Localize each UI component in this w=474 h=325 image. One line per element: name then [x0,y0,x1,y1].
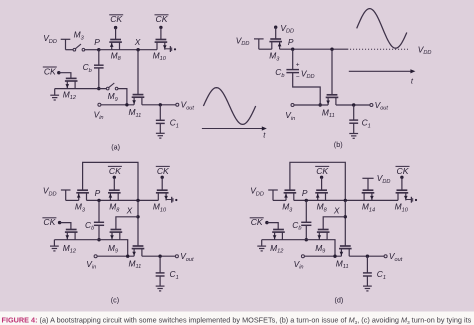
label C1 (c) [170,269,179,281]
terminal Vout (b) [370,104,373,107]
wire gate M11 (b) [331,49,333,95]
wire P to Cb (a) [98,50,100,65]
transistor M10 (c) [156,190,169,200]
terminal stub right of M10 (d) [406,197,417,203]
label M12 (a) [63,89,77,101]
label t (a) [263,131,266,140]
wire Cb to bottom node (d) [305,226,307,240]
label C1 (a) [170,118,179,130]
wire C1 bottom (c) [159,276,161,286]
wire gate M3 (b) [275,27,277,39]
wire bottom node row (d) [262,239,328,241]
label plus (b) [296,62,300,69]
capacitor C1 (b) [349,120,358,123]
label VDD (c) [43,186,57,198]
transistor M9 (c) [110,230,123,240]
label Vout (b) [375,100,389,112]
transistor M10 (a) [155,40,168,50]
switch M9 (a) [106,83,118,90]
wire Cb to bottom node (c) [98,226,100,240]
wire gate M8 (a) [115,28,117,40]
wire P to Cb (c) [98,200,100,222]
label CKbar left (a) [43,66,57,76]
label P (b) [288,37,294,47]
capacitor C1 (c) [156,273,165,276]
transistor M3 (c) [76,190,89,200]
label M11 (d) [336,258,349,270]
wire VDD stub to switch M3 (a) [61,39,73,49]
label M8 (c) [109,202,120,214]
node P (c) [97,199,100,202]
node CKbar dot M8 (d) [320,176,323,179]
svg-text:CK: CK [397,166,410,176]
label M14 (d) [362,202,375,214]
label CKbar above M8 (a) [109,14,123,24]
transistor M8 (a) [109,40,122,50]
terminal Vout (a) [176,103,179,106]
wire gate M3 tie to X top (d) [290,162,345,200]
wire VDD stub gate M14 (d) [362,178,373,190]
wire X vertical down to gate M11 (c) [137,200,139,246]
node X junction on rail (d) [344,199,347,202]
axis arrow t (b) [349,69,416,73]
svg-text:P: P [288,37,294,47]
wire bottom node row (a) [55,88,107,90]
node X junction on rail (c) [136,199,139,202]
wire M3 to P and rail (b) [280,48,349,50]
label P (c) [95,188,101,198]
svg-text:CK: CK [109,166,122,176]
label VDD (d) [250,186,264,198]
label M10 (d) [395,202,409,214]
svg-text:CK: CK [316,166,329,176]
svg-text:FIGURE 4: (a) A bootstrapping: FIGURE 4: (a) A bootstrapping circuit wi… [2,316,472,325]
wire ground riser M12 (d) [261,240,263,246]
capacitor Cb (a) [94,65,104,68]
terminal Vin (a) [98,103,101,106]
label Cb (c) [85,220,94,232]
label M3 (d) [282,202,293,214]
caption FIGURE 4 [2,316,472,325]
label M11 (c) [129,258,142,270]
node Cb bottom (c) [97,238,100,241]
node X (c) [136,215,139,218]
label VDD top (b) [280,23,294,35]
label P (d) [302,188,308,198]
wire gate M12 elbow (a) [59,73,71,79]
label CKbar above M8 (d) [315,166,329,176]
wire gate M12 elbow (d) [267,223,278,230]
node C1 junction (a) [159,103,162,106]
transistor M10 (d) [396,190,409,200]
label M8 (d) [317,202,328,214]
node P (b) [291,48,294,51]
wire Cb bottom elbow to Vin row (b) [293,73,321,105]
ground M12 (c) [50,246,59,251]
wire VDD stub to M3 (d) [268,190,286,200]
svg-text:X: X [134,37,141,47]
label VDD (a) [43,33,57,45]
wire bottom node row (c) [54,239,120,241]
node M9 junction (c) [126,255,129,258]
ground M12 (a) [50,95,59,100]
wire rail M3 to M10 (c) [87,199,159,201]
transistor M11 (a) [132,95,145,105]
label VDD across Cb (b) [301,68,315,80]
svg-text:CK: CK [157,166,170,176]
label M10 (c) [153,202,167,214]
label Vin (c) [86,259,96,271]
svg-text:X: X [126,206,133,216]
transistor M11 (b) [326,95,339,105]
label minus (b) [296,74,300,81]
label Vin (b) [285,110,295,122]
label Vout (a) [181,100,195,112]
label P (a) [94,37,100,47]
svg-text:CK: CK [110,14,123,24]
label (c) [111,296,119,305]
wire X to gate M11 (a) [137,50,139,95]
label VDD left (b) [236,35,250,47]
node Cb branch junction (b) [319,103,322,106]
terminal Vout (d) [384,255,387,258]
wire gate M8 (d) [321,177,323,190]
label (d) [335,296,344,305]
label M3 (a) [74,30,85,42]
wire Vin row (c) [97,255,134,257]
transistor M11 (c) [132,246,145,256]
label Vout (d) [389,251,403,263]
axis arrow t (a) [202,126,267,130]
wire VDD stub to M3 (b) [254,39,272,49]
node M9 junction (a) [125,103,128,106]
label Vin (a) [94,109,104,121]
label C1 (b) [362,118,371,130]
node CKbar dot M12 (d) [265,221,268,224]
wire P to Cb (d) [305,200,307,222]
node VDD dot top (b) [274,26,277,29]
label M8 (a) [111,50,122,62]
node Cb bottom (d) [305,238,308,241]
dotted rail VDD level (b) [350,48,408,50]
label (a) [111,142,120,151]
wire gate M10 (d) [401,177,403,190]
label CKbar left (c) [42,217,56,227]
label Cb (a) [83,62,92,74]
label CKbar above M8 (c) [108,166,122,176]
switch M3 (a) [73,44,85,51]
label Vout (c) [180,251,194,263]
label M9 (d) [315,243,325,255]
terminal Vin (d) [301,255,304,258]
svg-text:(d): (d) [335,296,344,305]
transistor M8 (d) [315,190,328,200]
wire M11 to Vout (b) [336,104,370,106]
wire X branch to gate M9 (d) [323,217,345,230]
svg-text:CK: CK [44,66,57,76]
wire C1 bottom (a) [159,124,161,133]
svg-text:−: − [296,74,300,81]
transistor M9 (d) [317,230,330,240]
svg-text:P: P [94,37,100,47]
transistor M12 (a) [65,78,78,88]
transistor M12 (d) [272,230,285,240]
svg-text:(b): (b) [334,140,343,149]
label Cb (b) [275,67,284,79]
label VDD above M14 (d) [377,173,391,185]
node CKbar dot M10 (c) [161,176,164,179]
label CKbar left (d) [250,217,264,227]
label Vin (d) [294,259,304,271]
wire Vin row (b) [294,104,328,106]
wire gate M10 (a) [160,27,162,39]
transistor M3 (b) [269,39,282,49]
svg-text:CK: CK [156,14,169,24]
wire C1 bottom (b) [353,124,355,134]
node CKbar dot M10 (a) [159,26,162,29]
transistor M14 (d) [362,190,375,200]
node M9 junction (d) [333,255,336,258]
label t (b) [411,77,414,86]
wire ground riser M12 (c) [53,240,55,246]
svg-text:P: P [95,188,101,198]
capacitor Cb (d) [301,222,311,225]
label CKbar above M10 (c) [156,166,170,176]
label M11 (b) [322,107,335,119]
wire M11 to Vout (d) [349,255,384,257]
terminal stub right of M10 (a) [165,46,176,52]
terminal Vin (b) [291,104,294,107]
terminal Vin (c) [94,255,97,258]
wire M11 to Vout (a) [142,104,176,106]
label M12 (d) [270,243,284,255]
ground C1 (b) [349,134,358,139]
wire Cb to bottom node (a) [98,68,100,88]
label X (d) [333,206,340,216]
svg-text:CK: CK [43,217,56,227]
node CKbar dot M8 (a) [114,26,117,29]
wire M11 to Vout (c) [142,255,176,257]
wire M9 down to Vin row (c) [120,240,127,257]
wire M9 down to Vin row (d) [328,240,335,257]
wire gate M8 (c) [113,177,115,190]
label M3 (c) [75,202,86,214]
label M12 (c) [63,243,77,255]
capacitor Cb (b) [286,70,299,73]
transistor M8 (c) [108,190,121,200]
wire C1 top (c) [159,256,161,272]
svg-text:P: P [302,188,308,198]
label CKbar above M10 (a) [155,14,169,24]
waveform sine at VDD (b) [357,9,407,49]
wire C1 bottom (d) [366,276,368,286]
waveform sine input (a) [203,88,255,125]
label M3 (b) [269,51,280,63]
node gate junction (b) [330,48,333,51]
wire M9 down to Vin row (a) [118,89,127,105]
wire ground riser M12 (a) [54,89,56,95]
capacitor C1 (a) [156,120,165,123]
transistor M12 (c) [65,230,78,240]
label M9 (a) [108,91,118,103]
ground C1 (d) [363,286,372,291]
label M10 (a) [153,50,167,62]
svg-text:+: + [296,62,300,69]
wire C1 top (d) [366,256,368,272]
node X (a) [136,48,139,51]
wire X branch to gate M9 (c) [116,217,138,230]
label X (a) [134,37,141,47]
label C1 (d) [377,269,386,281]
wire gate M12 elbow (c) [60,223,71,230]
svg-text:X: X [333,206,340,216]
node CKbar dot M12 (c) [58,221,61,224]
node C1 junction (b) [352,103,355,106]
capacitor Cb (c) [94,222,104,225]
transistor M3 (d) [284,190,297,200]
svg-text:(c): (c) [111,296,119,305]
wire Vin row (a) [101,104,134,106]
transistor M11 (d) [339,246,352,256]
ground M12 (d) [257,246,266,251]
ground C1 (c) [156,286,165,291]
label (b) [334,140,343,149]
node X (d) [344,215,347,218]
node P (d) [305,199,308,202]
wire rail M3 to M10 (d) [294,199,398,201]
node Cb bottom (a) [97,87,100,90]
label Cb (d) [292,220,301,232]
capacitor C1 (d) [363,273,372,276]
label X (c) [126,206,133,216]
ground C1 (a) [156,133,165,138]
wire P to Cb (b) [292,49,294,69]
svg-text:(a): (a) [111,142,120,151]
wire gate M10 (c) [161,177,163,190]
label CKbar above M10 (d) [396,166,410,176]
label M9 (c) [108,243,118,255]
node C1 junction (d) [366,255,369,258]
node C1 junction (c) [158,255,161,258]
node CKbar dot M12 (a) [57,71,60,74]
node P (a) [97,48,100,51]
node CKbar dot M10 (d) [400,176,403,179]
label VDD right (b) [418,44,432,56]
terminal stub right of M10 (c) [166,197,177,203]
wire X vertical down to gate M11 (d) [344,200,346,246]
wire C1 top (b) [353,105,355,120]
label M11 (a) [129,107,142,119]
terminal Vout (c) [175,255,178,258]
wire C1 top (a) [159,105,161,120]
wire rail P to M10 (a) [99,49,157,51]
wire VDD stub to M3 (c) [61,190,79,200]
wire gate M3 tie to X top (c) [83,162,138,200]
wire switch M3 to node P (a) [85,49,99,51]
wire Vin row (d) [304,255,341,257]
svg-text:CK: CK [251,217,264,227]
node CKbar dot M8 (c) [113,176,116,179]
